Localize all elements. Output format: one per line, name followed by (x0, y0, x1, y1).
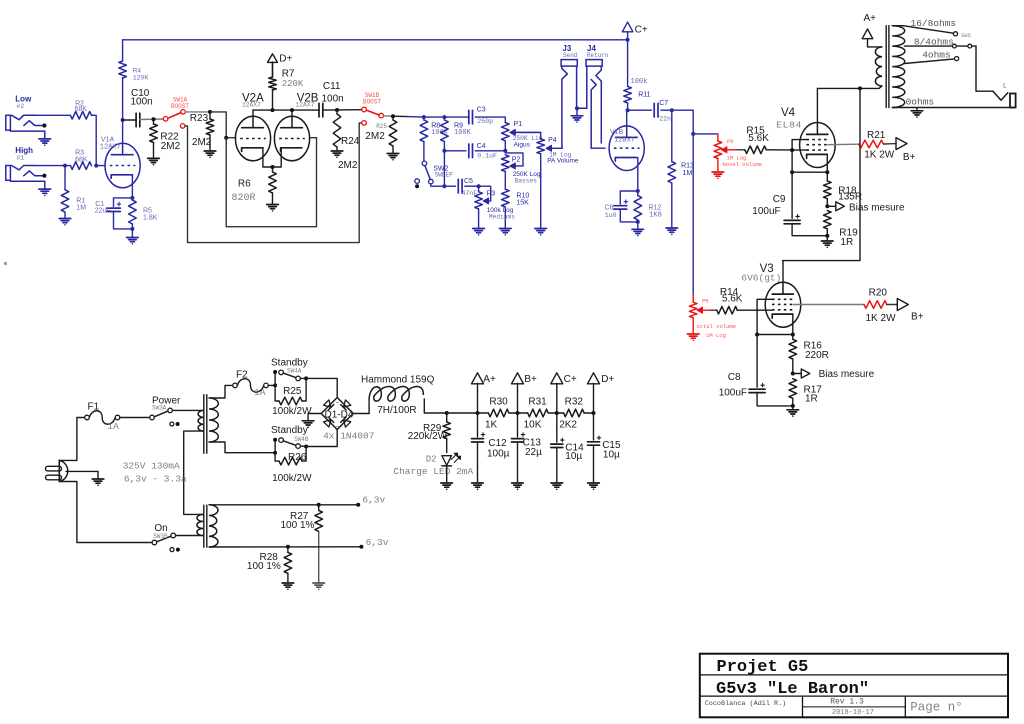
svg-text:22µ: 22µ (525, 447, 542, 458)
svg-text:R23: R23 (190, 113, 209, 124)
svg-text:100uF: 100uF (719, 387, 747, 398)
resistor R15 (745, 125, 769, 153)
potentiometer P4 PA Volume (513, 132, 579, 164)
wire V4 cathode tie (792, 171, 827, 173)
transformer T2 secondary (892, 26, 905, 108)
terminal 6,3v upper (356, 495, 385, 507)
pentode V4 EL84 (776, 107, 835, 168)
svg-text:2M2: 2M2 (365, 131, 385, 142)
svg-text:SW5: SW5 (961, 32, 971, 39)
node speck (4, 262, 7, 265)
svg-text:22n: 22n (659, 116, 671, 123)
wire V4 g3 tie (790, 140, 806, 173)
transformer T1 secondary upper (209, 398, 218, 442)
wire V3 cathode tie (757, 334, 793, 336)
switch SW3A Power (150, 395, 181, 426)
potentiometer P1 Aigus (502, 121, 543, 149)
svg-text:C9: C9 (773, 194, 786, 205)
svg-text:10K: 10K (524, 420, 542, 431)
ground C15 (588, 483, 600, 490)
svg-text:100K: 100K (454, 129, 472, 137)
wire C4 left (444, 150, 466, 152)
capacitor C13 (512, 413, 543, 483)
wire SW3A to primary (172, 409, 203, 411)
svg-text:1K8: 1K8 (649, 212, 662, 220)
svg-text:P6: P6 (727, 138, 734, 145)
switch SW4A standby (271, 358, 308, 386)
svg-text:2M2: 2M2 (338, 160, 358, 171)
node R7 junction (271, 108, 295, 112)
svg-text:D+: D+ (279, 54, 292, 65)
svg-text:1K: 1K (485, 420, 498, 431)
svg-text:8/4ohms: 8/4ohms (914, 37, 954, 48)
svg-text:12AX7: 12AX7 (100, 143, 121, 151)
svg-text:100n: 100n (131, 96, 153, 107)
capacitor C9 (752, 172, 827, 236)
svg-text:220K: 220K (282, 79, 304, 89)
svg-text:SW4B: SW4B (294, 436, 309, 443)
node R24 junction (335, 108, 339, 112)
svg-text:1.8K: 1.8K (143, 215, 158, 222)
ground C14 (551, 483, 563, 490)
ground P3 (473, 209, 485, 236)
pentode V3 6V6 (741, 263, 800, 327)
connector B+ V3 (887, 299, 924, 323)
node V3 cathode left (755, 333, 759, 337)
svg-text:0.1uF: 0.1uF (477, 153, 497, 160)
wire J3 tip to P4 wiper (561, 146, 563, 148)
svg-text:1R: 1R (840, 237, 853, 248)
svg-text:12AX7: 12AX7 (242, 102, 261, 109)
svg-text:C+: C+ (635, 25, 648, 36)
svg-text:F2: F2 (236, 369, 248, 380)
mains plug (46, 460, 68, 481)
svg-text:4x 1N4007: 4x 1N4007 (323, 431, 374, 442)
node P6 branch (691, 132, 695, 136)
svg-text:V4: V4 (781, 107, 796, 119)
node V4 cathode right (825, 170, 829, 174)
jack J2 Low input (6, 94, 51, 146)
resistor R25 grid (365, 116, 397, 153)
svg-text:1M: 1M (683, 170, 693, 177)
ground C12 (472, 483, 484, 490)
svg-text:250p: 250p (477, 118, 493, 125)
svg-text:6,3v: 6,3v (362, 495, 385, 506)
svg-text:820R: 820R (232, 193, 256, 204)
capacitor C3 (469, 106, 493, 125)
resistor R32 (557, 396, 594, 430)
node bias V4 (825, 204, 829, 208)
svg-text:R13: R13 (681, 163, 694, 170)
wire SW4A to bridge (306, 378, 337, 397)
jack J1 High input (6, 146, 51, 196)
ground P5 (687, 334, 699, 341)
svg-text:Standby: Standby (271, 425, 308, 436)
jack speaker (993, 83, 1016, 108)
resistor R23 (190, 112, 214, 151)
switch SW4B standby (271, 425, 309, 453)
node R9/C5 junction (442, 184, 446, 188)
svg-text:R4: R4 (133, 68, 142, 75)
svg-text:100uF: 100uF (752, 206, 780, 217)
ground jacks (571, 106, 587, 123)
transformer T1 primary upper (198, 410, 203, 431)
ground R1 (59, 219, 71, 226)
tap 8/4ohms (905, 37, 977, 48)
wire low jack to R2 (36, 114, 71, 116)
connector A+ OT (862, 13, 882, 47)
resistor R2 (70, 100, 91, 119)
wire V1B cathode (637, 158, 639, 192)
svg-text:10µ: 10µ (565, 451, 582, 462)
ground V1A cathode (127, 229, 139, 245)
wire V2B grid (309, 137, 316, 139)
svg-text:Novel Volume: Novel Volume (723, 161, 763, 168)
node cathode junction (130, 196, 134, 200)
wire V1A cathode (131, 175, 133, 198)
svg-text:SW3A: SW3A (152, 404, 167, 411)
wire plate node to C7 (628, 109, 652, 111)
resistor R12 (634, 191, 662, 222)
svg-text:R26: R26 (288, 452, 307, 463)
svg-text:CocoBlanca (Adil R.): CocoBlanca (Adil R.) (705, 700, 787, 708)
connector D+ psu (588, 373, 615, 413)
resistor R25 standby (272, 378, 312, 417)
wire plates tie (253, 109, 319, 111)
svg-text:D1-D4: D1-D4 (325, 409, 354, 420)
wire plug to F1 (59, 418, 85, 461)
resistor R13 (668, 110, 694, 227)
wire SW4B out (300, 445, 306, 447)
svg-text:High: High (15, 146, 33, 155)
svg-text:100 1%: 100 1% (281, 520, 315, 531)
svg-text:R30: R30 (489, 396, 508, 407)
resistor R6 (232, 167, 277, 204)
wire secondary to F2 (209, 385, 233, 398)
wire primary link (184, 431, 203, 514)
node R5 bottom (130, 227, 134, 231)
wire OT primary to plates (817, 87, 879, 89)
svg-text:5.6K: 5.6K (748, 133, 769, 144)
wire C11 out (323, 109, 364, 111)
wire to volume pots (692, 110, 694, 294)
wire SW3B to plug (59, 482, 152, 543)
wire V2A cathode (263, 148, 273, 167)
capacitor C8 (719, 335, 793, 406)
node R1 junction (63, 164, 67, 168)
svg-text:12ax7: 12ax7 (614, 137, 635, 145)
svg-text:D+: D+ (601, 374, 614, 385)
svg-text:P5: P5 (702, 298, 709, 305)
svg-text:Bias mesure: Bias mesure (819, 369, 875, 380)
svg-text:1A: 1A (254, 387, 266, 398)
svg-text:2018-10-17: 2018-10-17 (832, 709, 874, 717)
tap 16/8ohms (892, 18, 971, 39)
wire R9 to C5 wire (443, 151, 445, 186)
fuse F2 (233, 369, 269, 398)
wire C+ rail (123, 39, 628, 41)
resistor R28 (247, 547, 292, 583)
wire F2 to standby node (268, 384, 275, 386)
ground OT secondary (911, 108, 923, 118)
resistor R16 (789, 335, 829, 374)
node cathodes tie (271, 165, 275, 169)
node R23 junction (208, 110, 212, 114)
ground bridge (302, 421, 314, 428)
wire primary lower to SW3B (176, 535, 204, 537)
svg-text:P3: P3 (487, 190, 496, 197)
svg-text:B+: B+ (524, 374, 537, 385)
svg-text:6,3v - 3.3a: 6,3v - 3.3a (124, 474, 187, 485)
svg-text:C8: C8 (728, 372, 741, 383)
svg-text:120K: 120K (133, 75, 149, 82)
node V2A grid tie (224, 136, 228, 140)
node R28 junction (286, 545, 290, 549)
node A+ junction (476, 411, 480, 415)
svg-text:1K 2W: 1K 2W (866, 313, 897, 324)
LED D2 Charge (393, 453, 473, 477)
wire R8-R9 top (424, 116, 468, 118)
wire V3 g3 tie (757, 299, 772, 334)
ground R28 (282, 583, 294, 590)
wire V3 screen to R20 (794, 304, 865, 306)
svg-text:SW4A: SW4A (287, 367, 302, 374)
svg-text:16/8ohms: 16/8ohms (911, 18, 957, 29)
wire R14 to V3 g1 (737, 309, 772, 311)
svg-text:Return: Return (587, 52, 609, 59)
svg-text:2K2: 2K2 (559, 420, 577, 431)
wire SW4B to bridge (306, 430, 337, 447)
wire J4 to V1B grid (592, 147, 605, 149)
svg-text:220R: 220R (805, 350, 829, 361)
capacitor C6 (605, 191, 638, 222)
svg-text:A+: A+ (864, 13, 877, 24)
wire V2B plate (291, 110, 293, 116)
svg-text:10µ: 10µ (603, 449, 620, 460)
wire V1A plate to node (122, 120, 124, 143)
capacitor C4 (469, 143, 497, 160)
tap 4ohms (905, 50, 959, 64)
wire SW1B out (384, 115, 394, 117)
connector bias mesure V3 (793, 369, 875, 380)
node V4 cathode left (790, 170, 794, 174)
svg-text:BOOST: BOOST (171, 103, 189, 110)
svg-text:PA Volume: PA Volume (547, 158, 579, 165)
resistor R21 (859, 130, 895, 160)
svg-text:1A: 1A (107, 421, 119, 432)
wire SW2 to C5 (431, 184, 456, 186)
svg-text:SW3B: SW3B (153, 533, 168, 540)
switch SW3B On (152, 523, 180, 552)
svg-text:R21: R21 (867, 130, 886, 141)
capacitor C7 (654, 100, 671, 123)
resistor R27 (281, 505, 323, 583)
svg-text:Projet G5: Projet G5 (717, 658, 809, 677)
transformer T2 core (886, 26, 889, 108)
capacitor C15 (588, 413, 621, 483)
resistor R7 (269, 62, 304, 110)
svg-text:5.6K: 5.6K (722, 294, 743, 305)
transformer T2 primary (875, 47, 882, 89)
resistor R3 (70, 150, 91, 170)
wire heater top (209, 504, 358, 506)
transformer T1 core lower (204, 505, 207, 547)
svg-text:100µ: 100µ (487, 448, 510, 459)
switch SW1B boost (362, 92, 384, 125)
svg-text:BOOST: BOOST (363, 99, 381, 106)
svg-text:B+: B+ (911, 312, 924, 323)
triode V2B (274, 93, 318, 161)
svg-text:#1: #1 (16, 155, 24, 162)
connector B+ V4 (884, 138, 916, 163)
wire V4 cathode (826, 155, 828, 172)
capacitor C5 (458, 178, 477, 197)
svg-text:Charge LED 2mA: Charge LED 2mA (393, 466, 473, 477)
wire F1 to SW3A (120, 417, 150, 419)
svg-text:octal volume: octal volume (696, 323, 736, 330)
node V1B cathode junction (636, 189, 640, 193)
resistor R29 (408, 413, 451, 453)
svg-text:B+: B+ (903, 152, 916, 163)
wire V2A grid (226, 137, 235, 139)
ground R10 (500, 229, 512, 236)
node R29 junction (445, 411, 449, 415)
svg-text:6,3v: 6,3v (366, 537, 389, 548)
wire high jack to R1 node (36, 165, 71, 167)
svg-text:100 1%: 100 1% (247, 561, 281, 572)
svg-text:0ohms: 0ohms (906, 97, 935, 108)
svg-text:Low: Low (15, 94, 32, 103)
jack J4 Return (586, 44, 609, 148)
svg-text:R20: R20 (869, 287, 888, 298)
svg-text:100k/2W: 100k/2W (272, 406, 312, 417)
node R22 junction (152, 117, 156, 121)
ground R24 (331, 151, 343, 158)
connector C+ top (622, 22, 648, 40)
node C5/P3 junction (477, 184, 481, 188)
node R13 junction (670, 108, 674, 112)
node R17 bottom (791, 404, 795, 408)
resistor R26 standby (272, 447, 312, 485)
svg-text:Send: Send (563, 52, 578, 59)
triode V1B (609, 110, 644, 170)
svg-text:1M Log: 1M Log (706, 332, 726, 339)
node P1/P2 junction (503, 149, 507, 153)
svg-text:68K: 68K (75, 106, 88, 113)
svg-text:L: L (1003, 83, 1007, 90)
svg-text:68K: 68K (75, 156, 88, 163)
svg-text:C11: C11 (323, 81, 341, 92)
svg-text:325V 130mA: 325V 130mA (123, 461, 180, 472)
node SW4A out (304, 376, 308, 380)
svg-text:G5v3 "Le Baron": G5v3 "Le Baron" (716, 680, 869, 699)
transformer T1 primary lower (197, 514, 203, 535)
ground R23 (204, 151, 216, 158)
svg-text:2M2: 2M2 (192, 137, 212, 148)
fuse F1 (85, 411, 120, 425)
capacitor C12 (472, 413, 510, 483)
wire V3 plate (782, 261, 784, 283)
wire 0ohms (892, 97, 1013, 108)
svg-text:Page n°: Page n° (910, 700, 963, 714)
ground P4 (535, 154, 547, 236)
node D+ junction psu (592, 411, 596, 415)
resistor R31 (518, 396, 557, 430)
capacitor C14 (551, 413, 584, 483)
wire plug earth (66, 470, 98, 472)
potentiometer P3 Mediums (475, 186, 515, 220)
svg-text:P2: P2 (512, 156, 521, 163)
wire C7 out (661, 109, 693, 111)
svg-text:Aigus: Aigus (514, 142, 531, 149)
ground D2 (441, 466, 453, 490)
resistor R4 (119, 40, 149, 120)
resistor R5 (129, 198, 158, 229)
node R25b junction (391, 114, 395, 118)
svg-text:P4: P4 (548, 137, 557, 144)
wire rail A (447, 412, 478, 414)
svg-text:2M2: 2M2 (161, 141, 181, 152)
node standby A (273, 383, 277, 387)
svg-text:Hammond 159Q: Hammond 159Q (361, 375, 435, 386)
ground R22 (148, 158, 160, 165)
potentiometer P5 octal Volume (689, 294, 736, 339)
wire C4 right (475, 150, 505, 152)
wire V3 cathode (792, 315, 794, 335)
node R9 bottom C4 (442, 149, 446, 153)
capacitor C1 (95, 198, 133, 229)
connector D+ top (268, 54, 293, 78)
triode V2A (235, 93, 270, 161)
svg-text:A+: A+ (483, 374, 496, 385)
wire bridge right to choke (353, 413, 369, 415)
ground V3 cathode (787, 406, 799, 417)
resistor R18 (824, 172, 863, 206)
wire choke to rail (424, 412, 446, 414)
node C+ junction (626, 38, 630, 42)
bridge D1-D4 (321, 398, 374, 442)
svg-text:Basses: Basses (515, 178, 538, 185)
svg-text:D2: D2 (426, 454, 437, 464)
svg-text:12AX7: 12AX7 (296, 102, 315, 109)
svg-text:V1B: V1B (610, 129, 624, 136)
svg-text:R32: R32 (565, 396, 584, 407)
svg-text:R24: R24 (341, 136, 360, 147)
triode V1A (100, 137, 140, 188)
svg-text:R25: R25 (376, 123, 387, 130)
svg-text:Mediums: Mediums (489, 213, 515, 220)
resistor R20 (864, 287, 896, 324)
connector A+ (472, 373, 496, 413)
terminal 6,3v lower (359, 537, 388, 549)
wire plate rail down (783, 88, 861, 260)
svg-text:1M: 1M (76, 205, 86, 212)
wire P1 bottom (504, 141, 506, 151)
wire SW4A out (300, 377, 306, 379)
svg-text:F1: F1 (88, 401, 100, 412)
node V3 cathode right (791, 333, 795, 337)
transformer T1 secondary lower (209, 505, 218, 547)
svg-text:C5: C5 (464, 178, 473, 185)
ground mains earth (92, 471, 104, 486)
ground R13 (666, 228, 678, 235)
svg-text:R6: R6 (238, 178, 251, 189)
svg-text:7H/100R: 7H/100R (377, 405, 416, 416)
node plate rail (858, 86, 862, 90)
svg-text:1K 2W: 1K 2W (864, 149, 895, 160)
wire V2B cathode (273, 148, 282, 167)
svg-text:EL84: EL84 (776, 120, 802, 131)
